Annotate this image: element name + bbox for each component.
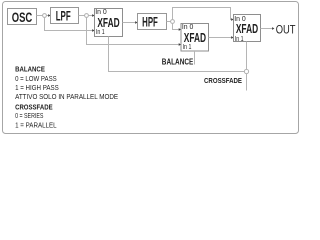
wire node A to LPF input [46, 15, 48, 17]
svg-text:0 = LOW PASS: 0 = LOW PASS [15, 74, 57, 83]
svg-text:BALANCE: BALANCE [162, 57, 194, 66]
svg-text:HPF: HPF [142, 14, 158, 30]
svg-text:1 = PARALLEL: 1 = PARALLEL [15, 120, 57, 129]
svg-text:ATTIVO SOLO IN PARALLEL MODE: ATTIVO SOLO IN PARALLEL MODE [15, 92, 118, 101]
svg-text:CROSSFADE: CROSSFADE [204, 76, 242, 85]
node D (crossfade junction) [244, 69, 248, 73]
svg-text:LPF: LPF [56, 8, 71, 24]
node A (junction after OSC) [43, 14, 47, 18]
crossfader XFAD U3 [234, 14, 261, 43]
svg-text:BALANCE: BALANCE [15, 64, 45, 73]
wire LPF to node B [79, 15, 85, 17]
wire OSC to node A [37, 15, 43, 17]
arrowhead at XFAD U2 In 0 [179, 28, 181, 31]
arrowhead at LPF input [48, 14, 50, 17]
wire XFAD U1 output to HPF [123, 22, 136, 24]
svg-text:OUT: OUT [276, 22, 296, 36]
wire node B to XFAD U1 In 0 [88, 15, 92, 17]
arrowhead at OUT [272, 27, 274, 30]
crossfader XFAD U2 [181, 22, 209, 51]
wire XFAD U3 output [261, 28, 273, 30]
wire HPF to node C [167, 21, 171, 23]
crossfader XFAD U1 [95, 7, 123, 36]
wire node B down to XFAD U2 In 1 [87, 17, 179, 44]
crossfade control line from XFAD U1 to node D [109, 37, 245, 72]
arrowhead at XFAD U3 In 1 [231, 36, 233, 39]
arrowhead at XFAD U2 In 1 [179, 43, 181, 46]
oscillator OSC [8, 9, 37, 26]
crossfade control line node D up to XFAD U3 [246, 42, 248, 70]
svg-text:In 1: In 1 [183, 42, 192, 51]
high pass filter HPF [138, 14, 167, 30]
crossfade control stub below node D [246, 74, 248, 91]
arrowhead at HPF input [135, 21, 137, 24]
arrowhead at XFAD U1 In 0 [92, 14, 94, 17]
wire node C up and over to XFAD U3 In 0 [173, 8, 232, 20]
wire XFAD U2 output to XFAD U3 In 1 [209, 37, 232, 39]
svg-text:In 1: In 1 [96, 27, 105, 36]
svg-text:1 = HIGH PASS: 1 = HIGH PASS [15, 83, 59, 92]
svg-text:OSC: OSC [12, 9, 33, 25]
low pass filter LPF [51, 8, 79, 24]
wire node C down to XFAD U2 In 0 [173, 23, 179, 29]
node B (junction after LPF) [85, 14, 89, 18]
wire node A bypass down to XFAD U1 In 1 [45, 17, 93, 30]
svg-text:0 = SERIES: 0 = SERIES [15, 111, 43, 120]
arrowhead at XFAD U3 In 0 [231, 18, 233, 21]
arrowhead at XFAD U1 In 1 [92, 29, 94, 32]
balance control line to XFAD U2 [194, 51, 196, 65]
node C (junction after HPF) [171, 20, 175, 24]
svg-text:In 1: In 1 [235, 34, 244, 43]
